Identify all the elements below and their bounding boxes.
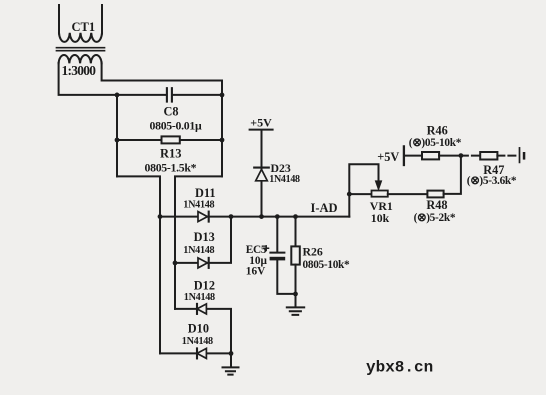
label R48 value (x)5-2k [414,212,456,224]
junction D13 row left [173,261,178,266]
wire rail C8 right to node B [173,94,222,96]
svg-text:D10: D10 [188,321,209,335]
label C8 value 0805-0.01u [150,118,202,132]
wire dashed node to R47 [461,155,480,157]
label R13 [160,146,182,160]
wire D11 row and main rail to I-AD [160,216,349,218]
wire D12 row down [175,309,231,354]
svg-text:D12: D12 [194,278,215,292]
wire R26 top lead [295,217,297,247]
svg-text:(⊗)05-10k*: (⊗)05-10k* [409,137,462,149]
resistor R47 [480,152,497,160]
watermark ybx8.cn [366,359,433,377]
resistor R48 [427,191,443,198]
wire D10 row [160,352,231,354]
label C8 [164,104,179,118]
resistor R26 [291,246,300,264]
resistor R13 [162,136,180,143]
label VR1 [370,199,393,213]
wire ground stem below D10 row [230,353,232,366]
wire node A vertical [116,95,118,176]
transformer CT1 primary leads [59,5,102,34]
power +5V above D23 [250,129,273,131]
label VR1 value 10k [371,211,390,225]
label D23 [271,161,291,175]
junction R26 rail [293,214,298,219]
diode D11 [198,212,209,222]
capacitor EC5 electrolytic [264,246,285,261]
svg-text:1N4148: 1N4148 [269,174,300,185]
label +5V above D23 [250,116,272,130]
svg-text:R26: R26 [303,244,323,258]
svg-text:R13: R13 [160,146,182,160]
svg-text:(⊗)5-2k*: (⊗)5-2k* [414,212,456,224]
label EC5 value 10u [249,255,267,267]
transformer CT1 primary winding [59,33,102,42]
label net I-AD [311,201,338,215]
wire D13 row up to rail [175,217,231,263]
svg-text:+5V: +5V [250,116,272,130]
svg-text:1:3000: 1:3000 [62,63,97,78]
wire node A drop to diode column [117,176,160,353]
label R47 [483,163,504,177]
junction D11 row right [229,214,234,219]
diode D12 [197,304,206,314]
svg-text:R48: R48 [426,198,447,212]
svg-text:C8: C8 [164,104,179,118]
resistor R46 [422,152,439,159]
junction R13 row left [115,138,120,143]
diode D10 [197,348,206,358]
label D11 part 1N4148 [183,199,214,210]
junction EC5 rail [275,214,280,219]
label D12 part 1N4148 [184,292,215,303]
label R47 value (x)5-3.6k [467,175,517,187]
wire D23 stem from +5V to rail [261,130,263,216]
wire VR1 left terminal [349,193,371,195]
svg-text:0805-1.5k*: 0805-1.5k* [145,161,197,175]
wire secondary left lead to node A rail [59,63,167,95]
svg-text:+5V: +5V [377,150,399,164]
label R26 [303,244,323,258]
label D11 [195,186,216,200]
label D10 part 1N4148 [182,336,213,347]
wire secondary right lead top jog to node B [102,63,222,95]
wire rail corner up to VR1 wiper feed [349,164,378,216]
capacitor C8 [167,88,172,101]
svg-text:1N4148: 1N4148 [182,336,213,347]
ground under diode network [223,367,239,374]
label D12 [194,278,215,292]
svg-text:ybx8.cn: ybx8.cn [366,359,433,377]
junction R46 R47 R48 [459,153,464,158]
transformer CT1 secondary winding [59,55,102,63]
potentiometer VR1 [372,181,388,197]
diode D13 [198,258,209,268]
power +5V bar right section [403,146,405,165]
svg-text:0805-0.01μ: 0805-0.01μ [150,118,202,132]
terminal symbol right end [520,148,526,163]
svg-text:(⊗)5-3.6k*: (⊗)5-3.6k* [467,175,517,187]
label R48 [426,198,447,212]
wire node B drop to diode column [175,176,222,309]
wire R48 right lead up to node [444,156,461,194]
wire R26 bottom lead to ground [295,265,297,307]
wire node B vertical [221,95,223,176]
svg-text:I-AD: I-AD [311,201,338,215]
wire EC5 bottom lead to R26 bottom [277,261,295,294]
label ratio 1:3000 [62,63,97,78]
label D13 part 1N4148 [183,245,214,256]
svg-text:D11: D11 [195,186,216,200]
label D23 part 1N4148 [269,174,300,185]
wire dashed R47 to terminal [497,155,519,157]
label EC5 [246,244,267,256]
label R13 value 0805-1.5k [145,161,197,175]
svg-text:1N4148: 1N4148 [184,292,215,303]
wire R46 right lead to node [439,155,461,157]
ground under R26 [287,307,304,315]
wire VR1 right terminal to R48 [388,193,428,195]
label D10 [188,321,209,335]
label +5V right section [377,150,399,164]
label CT1 [72,20,96,34]
svg-text:CT1: CT1 [72,20,96,34]
transformer CT1 core [57,48,105,51]
diode D23 [254,168,269,181]
junction node A rail [115,93,120,98]
label EC5 value 16V [246,266,266,278]
junction R13 row right [220,138,225,143]
svg-text:D23: D23 [271,161,291,175]
junction D11 row left [158,214,163,219]
svg-text:D13: D13 [194,230,215,244]
label R26 value 0805-10k [303,259,351,271]
junction VR1 left terminal [347,192,352,197]
svg-text:16V: 16V [246,266,266,278]
svg-text:0805-10k*: 0805-10k* [303,259,351,271]
junction D23 rail [259,214,264,219]
junction node B rail [220,93,225,98]
wire EC5 top lead [276,217,278,252]
svg-text:R46: R46 [427,123,448,137]
svg-text:1N4148: 1N4148 [183,245,214,256]
svg-text:10k: 10k [371,211,390,225]
wire +5V bar to R46 [405,155,422,157]
junction EC5 R26 bottom [293,292,298,297]
wire R13 row [117,139,222,141]
junction D10 row right [229,351,234,356]
svg-text:1N4148: 1N4148 [183,199,214,210]
label D13 [194,230,215,244]
label R46 [427,123,448,137]
label R46 value (x)05-10k [409,137,462,149]
